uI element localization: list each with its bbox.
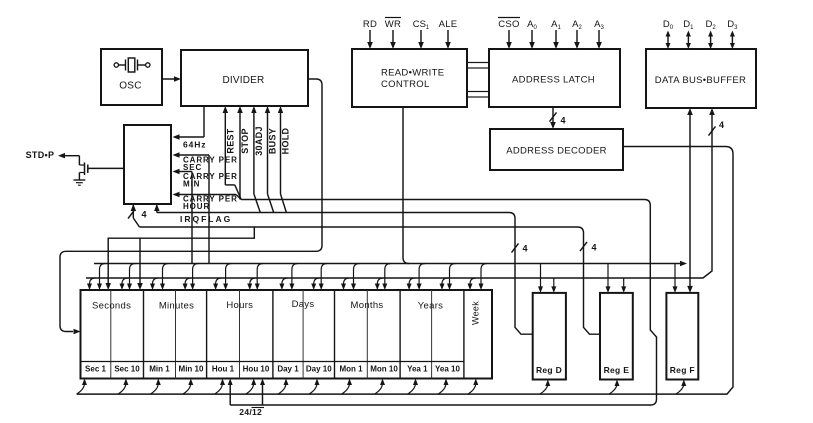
- svg-text:DATA BUS•BUFFER: DATA BUS•BUFFER: [655, 75, 746, 86]
- svg-text:HOUR: HOUR: [183, 202, 210, 211]
- svg-text:4: 4: [592, 243, 597, 253]
- svg-text:CONTROL: CONTROL: [381, 79, 430, 90]
- svg-text:30ADJ: 30ADJ: [254, 126, 264, 156]
- svg-text:Hou 10: Hou 10: [243, 365, 270, 374]
- svg-text:STD•P: STD•P: [26, 150, 55, 160]
- svg-text:SEC: SEC: [183, 163, 202, 172]
- svg-text:BUSY: BUSY: [268, 128, 278, 154]
- svg-text:4: 4: [719, 120, 724, 130]
- svg-text:Day 10: Day 10: [306, 365, 332, 374]
- svg-text:Day 1: Day 1: [277, 365, 299, 374]
- svg-text:Reg D: Reg D: [536, 365, 562, 375]
- svg-text:CSO: CSO: [498, 19, 520, 30]
- svg-text:Hours: Hours: [226, 300, 253, 311]
- svg-text:Minutes: Minutes: [159, 301, 194, 312]
- svg-text:REST: REST: [226, 128, 236, 153]
- svg-text:IRQFLAG: IRQFLAG: [180, 214, 232, 224]
- svg-text:Reg F: Reg F: [670, 365, 695, 375]
- svg-text:Mon 10: Mon 10: [370, 365, 398, 374]
- svg-text:Seconds: Seconds: [92, 301, 131, 312]
- svg-text:4: 4: [523, 244, 528, 254]
- svg-text:Months: Months: [351, 300, 384, 311]
- svg-text:RD: RD: [363, 19, 377, 30]
- svg-text:ADDRESS DECODER: ADDRESS DECODER: [506, 146, 607, 157]
- svg-text:WR: WR: [385, 19, 401, 30]
- svg-text:Reg E: Reg E: [604, 365, 630, 375]
- svg-text:Years: Years: [418, 301, 443, 312]
- svg-text:ALE: ALE: [439, 19, 458, 30]
- svg-text:DIVIDER: DIVIDER: [223, 75, 265, 86]
- svg-text:Min 1: Min 1: [149, 365, 170, 374]
- svg-text:4: 4: [561, 116, 566, 126]
- svg-text:Sec 1: Sec 1: [85, 365, 106, 374]
- svg-text:Sec 10: Sec 10: [114, 365, 140, 374]
- svg-text:MIN: MIN: [183, 180, 200, 189]
- svg-text:STOP: STOP: [240, 128, 250, 154]
- svg-text:Hou 1: Hou 1: [212, 365, 235, 374]
- svg-text:24/12: 24/12: [239, 407, 262, 417]
- svg-text:Yea 1: Yea 1: [407, 365, 428, 374]
- svg-text:Yea 10: Yea 10: [435, 365, 460, 374]
- svg-text:OSC: OSC: [119, 81, 142, 92]
- svg-text:READ•WRITE: READ•WRITE: [381, 68, 444, 79]
- svg-text:64Hz: 64Hz: [183, 140, 206, 150]
- svg-text:Min 10: Min 10: [179, 365, 204, 374]
- svg-text:Week: Week: [470, 301, 480, 325]
- svg-text:4: 4: [142, 210, 147, 220]
- svg-text:Days: Days: [292, 299, 315, 310]
- svg-text:Mon 1: Mon 1: [339, 365, 363, 374]
- svg-text:HOLD: HOLD: [281, 127, 291, 154]
- svg-text:ADDRESS LATCH: ADDRESS LATCH: [512, 75, 595, 86]
